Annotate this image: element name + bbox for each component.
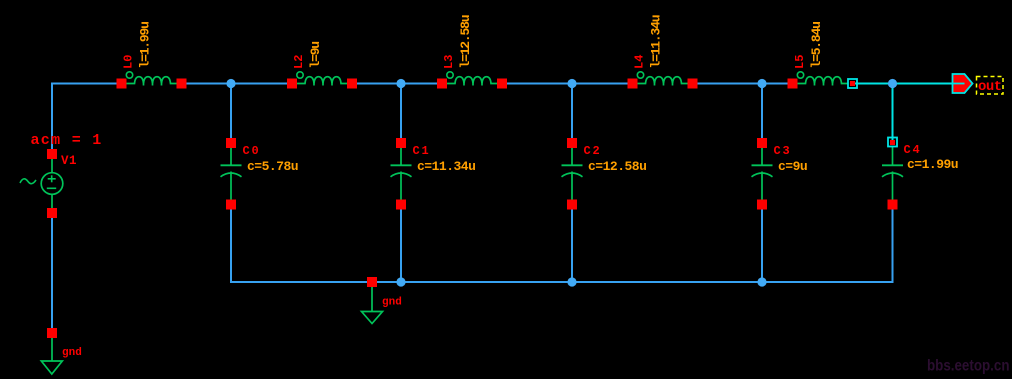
inductor L4 <box>628 72 698 89</box>
svg-text:L0: L0 <box>122 55 136 69</box>
output pin out <box>953 74 973 93</box>
label C4 <box>904 143 922 157</box>
wire top bus segment 5 <box>693 83 793 85</box>
pin C4 top (selected) <box>888 138 897 147</box>
wire bottom bus <box>230 281 894 283</box>
value label c=1.99u <box>907 157 958 172</box>
svg-text:l=5.84u: l=5.84u <box>809 22 824 69</box>
pin name box out <box>977 77 1004 96</box>
label L4 <box>633 55 647 69</box>
label C2 <box>584 144 602 158</box>
label gnd middle <box>382 297 402 309</box>
wire out net selected (cyan) <box>853 83 964 85</box>
svg-text:l=1.99u: l=1.99u <box>138 22 153 69</box>
label L0 <box>122 55 136 69</box>
value label c=11.34u <box>417 159 475 174</box>
svg-text:bbs.eetop.cn: bbs.eetop.cn <box>927 358 1010 375</box>
watermark bbs.eetop.cn <box>927 358 1010 375</box>
inductor L0 <box>117 72 187 89</box>
capacitor C1 <box>391 138 412 210</box>
svg-text:c=9u: c=9u <box>778 159 807 174</box>
junction node top C1 <box>396 79 405 88</box>
wire top bus segment 4 <box>502 83 633 85</box>
value label l=11.34u <box>649 15 664 68</box>
value label l=5.84u <box>809 22 824 69</box>
capacitor C3 <box>752 138 773 210</box>
value label l=1.99u <box>138 22 153 69</box>
svg-text:l=9u: l=9u <box>308 42 323 69</box>
svg-text:C2: C2 <box>584 144 602 158</box>
svg-text:C4: C4 <box>904 143 922 157</box>
svg-text:C0: C0 <box>243 144 261 158</box>
wire C0 top <box>230 84 232 144</box>
svg-text:l=11.34u: l=11.34u <box>649 15 664 68</box>
wire V1 top vertical <box>51 84 53 155</box>
svg-text:V1: V1 <box>61 154 77 168</box>
wire C2 bottom <box>571 205 573 283</box>
svg-text:C1: C1 <box>413 144 431 158</box>
label L5 <box>793 55 807 69</box>
value label l=12.58u <box>458 15 473 68</box>
wire C2 top <box>571 84 573 144</box>
svg-text:gnd: gnd <box>62 347 82 359</box>
svg-text:out: out <box>978 79 1002 95</box>
property label acm = 1 <box>31 132 103 149</box>
junction node bottom C3 <box>757 277 766 286</box>
value label c=5.78u <box>247 159 298 174</box>
label C0 <box>243 144 261 158</box>
wire top bus segment 3 <box>352 83 442 85</box>
wire C1 top <box>400 84 402 144</box>
wire C4 bottom <box>892 205 894 284</box>
pin L5 right (selected) <box>848 79 857 88</box>
capacitor C4 <box>882 147 903 210</box>
wire C3 bottom <box>761 205 763 283</box>
wire top bus segment 1 <box>51 83 122 85</box>
label gnd left <box>62 347 82 359</box>
label L2 <box>292 55 306 69</box>
svg-text:L5: L5 <box>793 55 807 69</box>
label L3 <box>442 55 456 69</box>
wire C4 top selected (cyan) <box>892 84 894 143</box>
capacitor C0 <box>221 138 242 210</box>
label C1 <box>413 144 431 158</box>
ground left <box>41 328 62 374</box>
svg-text:l=12.58u: l=12.58u <box>458 15 473 68</box>
voltage source V1 <box>20 149 63 218</box>
svg-text:L2: L2 <box>292 55 306 69</box>
label V1 <box>61 154 77 168</box>
svg-text:C3: C3 <box>774 144 792 158</box>
value label c=9u <box>778 159 807 174</box>
svg-text:L4: L4 <box>633 55 647 69</box>
wire C1 bottom <box>400 205 402 283</box>
junction node bottom C1 <box>396 277 405 286</box>
junction node out <box>888 79 897 88</box>
inductor L5 <box>788 72 849 89</box>
inductor L2 <box>287 72 357 89</box>
ground middle <box>362 277 383 324</box>
svg-text:c=1.99u: c=1.99u <box>907 157 958 172</box>
svg-text:c=11.34u: c=11.34u <box>417 159 475 174</box>
value label c=12.58u <box>588 159 646 174</box>
svg-text:L3: L3 <box>442 55 456 69</box>
junction node bottom C2 <box>567 277 576 286</box>
inductor L3 <box>437 72 507 89</box>
wire top bus segment 2 <box>182 83 293 85</box>
label C3 <box>774 144 792 158</box>
svg-text:c=5.78u: c=5.78u <box>247 159 298 174</box>
junction node top C2 <box>567 79 576 88</box>
junction node top C0 <box>226 79 235 88</box>
svg-text:c=12.58u: c=12.58u <box>588 159 646 174</box>
capacitor C2 <box>562 138 583 210</box>
svg-text:gnd: gnd <box>382 297 402 309</box>
junction node top C3 <box>757 79 766 88</box>
value label l=9u <box>308 42 323 69</box>
wire C3 top <box>761 84 763 144</box>
svg-text:acm = 1: acm = 1 <box>31 132 103 149</box>
wire C0 bottom <box>230 205 232 284</box>
wire V1 to ground <box>51 213 53 333</box>
